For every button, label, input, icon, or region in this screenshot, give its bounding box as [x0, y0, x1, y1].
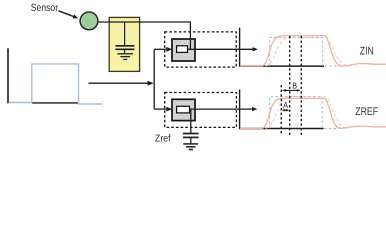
label B: [292, 80, 297, 90]
svg-text:Zref: Zref: [155, 134, 171, 145]
resistor RREF: [177, 106, 190, 113]
ZREF measurement dashed box: [165, 93, 237, 128]
ZIN component box (gray): [172, 39, 195, 61]
svg-text:A: A: [283, 100, 288, 110]
capacitor C1 plates: [115, 46, 134, 54]
resistor RIN: [177, 46, 188, 53]
label Sensor: [31, 2, 59, 14]
ZIN plot vertical axis: [239, 28, 241, 67]
label A: [283, 100, 288, 110]
pulse source time axis: [32, 102, 79, 104]
ZREF dashed orange response: [266, 97, 351, 129]
label ZIN: [360, 45, 374, 57]
arrow from Sensor label to sensor circle: [59, 11, 79, 19]
wire ZIN output to scope: [187, 47, 258, 51]
ZREF component box (gray): [172, 99, 195, 120]
ground under Cref: [183, 144, 198, 150]
ZIN ideal pulse (blue dashed): [270, 37, 345, 66]
pulse waveform: [9, 64, 103, 104]
label Zref: [155, 134, 171, 145]
label ZREF: [355, 106, 378, 118]
pulse drive arrow: [89, 81, 154, 86]
junction vertical wire from pulse arrow: [153, 49, 155, 109]
wire into ZIN box: [154, 47, 172, 52]
ZIN dashed orange response: [266, 38, 357, 66]
cursor line t1 (ZREF only): [280, 85, 282, 136]
wire ZREF output to scope: [190, 107, 258, 111]
svg-text:ZREF: ZREF: [355, 106, 378, 118]
dimension arrow A: [282, 109, 289, 112]
ZREF ideal pulse (blue dashed): [270, 97, 343, 129]
svg-text:B: B: [292, 80, 297, 90]
ZIN measurement dashed box: [165, 32, 237, 67]
wire sensor to ZIN node: [98, 22, 191, 49]
ZREF plot baseline: [240, 128, 324, 130]
capacitor Cref plates: [183, 134, 199, 144]
capacitor C1 lead: [124, 22, 126, 45]
cursor line t2: [289, 36, 291, 136]
ZREF plot vertical axis: [239, 90, 241, 130]
matching network box (yellow): [109, 17, 139, 71]
cursor line t3: [300, 36, 302, 136]
wire into ZREF box: [154, 107, 172, 112]
svg-text:Sensor: Sensor: [31, 2, 59, 14]
ZREF response curve (orange): [240, 98, 386, 128]
capacitor Cref lead: [190, 109, 192, 134]
svg-text:ZIN: ZIN: [360, 45, 374, 57]
sensor circle: [80, 12, 98, 30]
ZIN response curve (orange): [240, 36, 386, 66]
dimension arrow B: [282, 89, 300, 92]
ground in yellow box: [118, 54, 134, 60]
ZIN plot baseline: [240, 65, 324, 67]
pulse source y-axis: [7, 48, 9, 103]
